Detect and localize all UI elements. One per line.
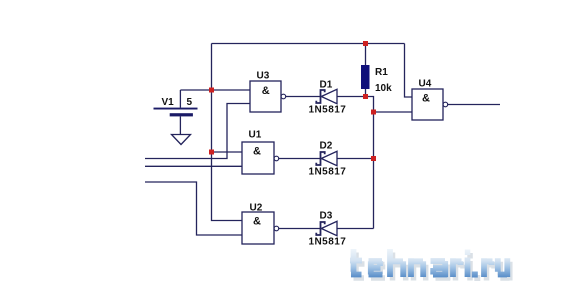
svg-text:U1: U1 (249, 130, 262, 141)
letter t (350, 249, 362, 275)
svg-text:10k: 10k (375, 83, 392, 94)
junction bus-U1 input (209, 150, 214, 155)
junction R1-D1 node (363, 94, 368, 99)
wire line B to U1 input B (145, 165, 242, 167)
diode D1 (316, 89, 337, 103)
letter i stem (465, 258, 471, 278)
gate U4 (412, 89, 448, 120)
letter a (431, 261, 448, 277)
wire U2 output to D3 (279, 228, 320, 230)
letter u (498, 258, 508, 277)
wire D3 to bus (337, 228, 374, 230)
svg-text:5: 5 (187, 97, 193, 108)
wire U3 output to D1 (286, 96, 320, 98)
gate U3 (250, 81, 286, 112)
svg-text:D1: D1 (320, 80, 333, 91)
wire vertical bus left (212, 44, 243, 221)
gate U1 (242, 142, 279, 174)
letter r (453, 258, 462, 277)
diode D2 (316, 151, 337, 165)
letter n (411, 258, 423, 277)
watermark tehnari.ru (350, 249, 507, 277)
wire diode bus vertical (373, 112, 375, 229)
period (472, 272, 478, 278)
wire rail to U4 input A (405, 44, 413, 98)
wire D2 to bus (337, 158, 374, 160)
svg-text:U4: U4 (419, 79, 432, 90)
svg-text:1N5817: 1N5817 (309, 167, 347, 178)
letter e (369, 261, 383, 275)
wire node to U4 input B (374, 111, 413, 113)
wire U3 input B from line A (145, 104, 250, 159)
gate U2 (242, 212, 279, 244)
wire R1 bottom stem (365, 89, 367, 97)
wire U1 output to D2 (279, 158, 320, 160)
watermark tehnari.ru shadow (353, 253, 510, 282)
wire U4 output (448, 104, 500, 106)
svg-text:&: & (422, 93, 430, 105)
svg-text:1N5817: 1N5817 (309, 237, 347, 248)
junction D2-bus (371, 156, 376, 161)
ground (172, 135, 191, 145)
battery V1 (154, 90, 198, 135)
diode D3 (316, 221, 337, 235)
wire top rail VCC (212, 43, 405, 45)
junction node-U4 input (371, 110, 376, 115)
svg-text:1N5817: 1N5817 (309, 105, 347, 116)
svg-text:R1: R1 (375, 67, 388, 78)
svg-text:&: & (253, 216, 261, 228)
svg-text:U3: U3 (257, 71, 270, 82)
wire battery to U3 input A (180, 89, 250, 91)
letter i dot (465, 250, 471, 256)
junction rail-R1 (363, 41, 368, 46)
wire R1 top stem (365, 44, 367, 66)
resistor R1 (361, 65, 370, 89)
svg-text:&: & (253, 146, 261, 158)
svg-text:D3: D3 (320, 211, 333, 222)
junction bus-battery (209, 88, 214, 93)
svg-text:U2: U2 (250, 203, 263, 214)
letter r2 (484, 258, 493, 277)
wire U1 input A from bus (212, 151, 243, 153)
wire D1 to node (337, 97, 374, 113)
svg-text:V1: V1 (162, 97, 175, 108)
letter h (390, 249, 403, 277)
svg-text:&: & (262, 85, 270, 97)
wire line C to U2 input B (145, 182, 242, 235)
svg-text:D2: D2 (320, 141, 333, 152)
